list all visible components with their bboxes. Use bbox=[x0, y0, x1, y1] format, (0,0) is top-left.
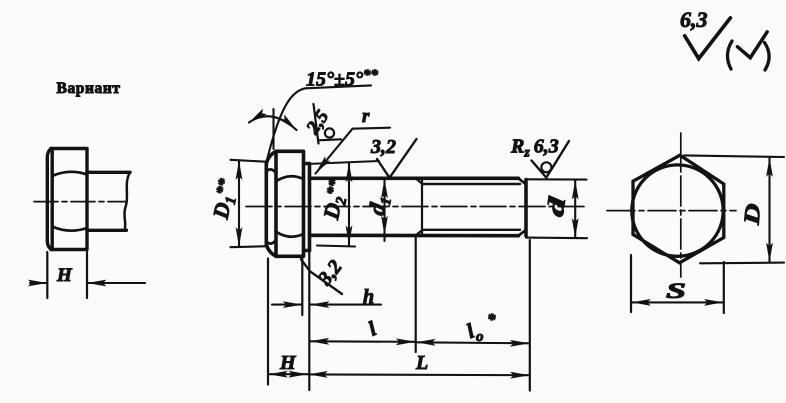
h dimension bbox=[272, 304, 381, 306]
svg-text:Вариант: Вариант bbox=[57, 80, 121, 97]
D2 extension lines bbox=[307, 161, 379, 247]
S dimension bbox=[631, 301, 724, 303]
d1 dimension bbox=[383, 179, 385, 242]
15 deg leader bbox=[267, 88, 306, 160]
variant head outline bbox=[47, 149, 87, 250]
variant H dimension bbox=[30, 282, 145, 284]
main hex head bbox=[266, 151, 303, 256]
label d1 bbox=[364, 194, 395, 218]
l0 dimension bbox=[416, 342, 530, 343]
D1 extension lines bbox=[231, 160, 268, 247]
roughness 3,2 under head bbox=[301, 259, 342, 294]
label D2** bbox=[318, 177, 354, 223]
thread minor diameter lines bbox=[423, 184, 521, 230]
15 deg leader shelf bbox=[306, 85, 372, 88]
washer face bbox=[304, 164, 310, 251]
H dimension main bbox=[268, 373, 308, 375]
svg-text:S: S bbox=[666, 278, 686, 303]
svg-text:d: d bbox=[543, 194, 572, 218]
open paren bbox=[727, 41, 732, 69]
variant H extension lines bbox=[47, 252, 87, 298]
label D bbox=[739, 202, 766, 227]
main check mark bbox=[685, 18, 731, 59]
hex horizontal centerline bbox=[607, 210, 736, 212]
hex end view circle bbox=[632, 165, 723, 256]
shank bbox=[310, 178, 519, 235]
svg-text:6,3: 6,3 bbox=[680, 7, 708, 32]
svg-text:2,5: 2,5 bbox=[302, 106, 334, 139]
label D1** bbox=[207, 176, 243, 222]
svg-text:H: H bbox=[56, 265, 73, 286]
svg-text:L: L bbox=[415, 352, 428, 374]
angle reference line bbox=[272, 109, 274, 149]
svg-text:d1: d1 bbox=[364, 194, 395, 218]
svg-text:*: * bbox=[487, 310, 496, 329]
angle arc bbox=[249, 116, 297, 130]
svg-text:o: o bbox=[476, 329, 484, 345]
svg-text:h: h bbox=[363, 286, 374, 308]
bottom extension lines bbox=[267, 259, 269, 385]
svg-text:r: r bbox=[362, 106, 370, 127]
close paren bbox=[765, 43, 770, 71]
D extension lines bbox=[684, 155, 784, 263]
svg-text:Rz 6,3: Rz 6,3 bbox=[510, 136, 559, 161]
bolt end face bbox=[519, 178, 527, 235]
D2 dimension bbox=[348, 163, 350, 246]
svg-text:H: H bbox=[279, 352, 297, 374]
roughness 2,5 symbol bbox=[314, 104, 319, 144]
hex end view hexagon bbox=[633, 155, 724, 263]
thread runout bbox=[416, 178, 423, 235]
S extension lines bbox=[631, 255, 724, 313]
svg-text:l: l bbox=[365, 316, 380, 340]
D1 dimension bbox=[238, 160, 240, 247]
svg-text:3,2: 3,2 bbox=[370, 136, 396, 158]
paren check mark bbox=[737, 32, 767, 58]
svg-text:D: D bbox=[739, 202, 766, 227]
main centerline bbox=[246, 206, 588, 208]
variant centerline bbox=[34, 201, 127, 203]
d extension lines bbox=[526, 179, 587, 238]
variant shank bbox=[87, 172, 130, 230]
l dimension bbox=[310, 340, 416, 343]
hex vertical centerline bbox=[680, 133, 682, 277]
D dimension bbox=[768, 157, 770, 262]
svg-text:3,2: 3,2 bbox=[313, 256, 346, 290]
L dimension bbox=[308, 373, 530, 376]
d dimension bbox=[574, 180, 576, 238]
